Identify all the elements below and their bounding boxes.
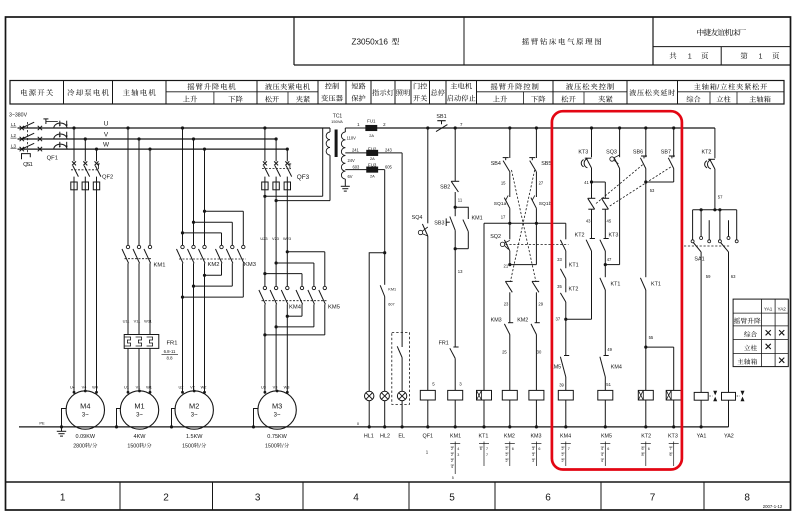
svg-text:KM1: KM1 <box>472 215 483 221</box>
coil KM1 <box>448 390 463 400</box>
svg-text:U: U <box>104 120 109 127</box>
svg-text:63: 63 <box>731 274 736 279</box>
svg-text:23: 23 <box>504 302 509 307</box>
svg-text:1: 1 <box>60 493 66 504</box>
svg-text:43: 43 <box>586 219 591 224</box>
svg-text:W11: W11 <box>144 319 152 324</box>
svg-text:6: 6 <box>669 453 671 457</box>
svg-text:57: 57 <box>718 195 723 200</box>
column SQ4 / QF1 undervoltage coil <box>426 126 429 129</box>
contact KT1 in KT2 branch <box>645 182 647 277</box>
header label coolant pump motor <box>67 89 74 96</box>
header label main motor start stop <box>450 83 457 89</box>
svg-text:Z3050x16: Z3050x16 <box>352 38 389 47</box>
svg-text:KT2: KT2 <box>569 286 579 292</box>
contact table KM3 <box>535 442 537 467</box>
svg-text:V2: V2 <box>190 384 195 389</box>
svg-text:3: 3 <box>532 459 534 463</box>
wire 63 to YA2 <box>728 252 730 393</box>
up button SB4 <box>503 157 509 159</box>
svg-text:W2: W2 <box>201 384 207 389</box>
svg-text:3: 3 <box>532 453 534 457</box>
red highlight box <box>552 111 682 469</box>
svg-text:0: 0 <box>191 443 194 449</box>
svg-text:KT1: KT1 <box>651 282 661 288</box>
stop button SB2 <box>451 180 459 182</box>
svg-text:37: 37 <box>556 317 561 322</box>
svg-text:V: V <box>104 131 109 138</box>
clamp chain SQ2 second contact <box>560 240 565 251</box>
clamp chain KT1 contact <box>560 269 565 279</box>
svg-text:YA2: YA2 <box>724 433 734 439</box>
fuse FU2 <box>367 150 378 155</box>
node 53 <box>644 180 647 183</box>
svg-text:3~: 3~ <box>191 413 198 419</box>
interlock contact KM2 NC <box>531 324 536 335</box>
svg-text:FU2: FU2 <box>368 146 377 151</box>
svg-text:1: 1 <box>759 52 763 61</box>
svg-text:3~: 3~ <box>136 413 143 419</box>
stop button SB1 on rail <box>437 120 445 122</box>
svg-text:SB4: SB4 <box>491 161 501 167</box>
svg-text:150VA: 150VA <box>331 119 343 124</box>
svg-text:5: 5 <box>449 493 455 504</box>
svg-text:27: 27 <box>539 181 544 186</box>
svg-text:605: 605 <box>385 164 393 169</box>
svg-text:3~: 3~ <box>274 413 281 419</box>
wire control rail L1 <box>377 127 715 129</box>
solenoid function table <box>733 299 788 367</box>
svg-text:L1: L1 <box>11 122 16 127</box>
svg-text:51: 51 <box>606 382 611 387</box>
motor breaker QF2 <box>73 128 75 161</box>
interlock KM5 NC tall <box>565 319 567 355</box>
svg-text:V3: V3 <box>273 384 278 389</box>
svg-text:11: 11 <box>458 198 463 203</box>
svg-text:4: 4 <box>601 459 603 463</box>
header label hydraulic clamp control <box>566 83 573 90</box>
svg-text:KT2: KT2 <box>575 233 585 239</box>
svg-text:KT3: KT3 <box>668 433 678 439</box>
wires KM4/KM5 to motor M3 <box>264 304 266 392</box>
svg-text:0: 0 <box>274 443 277 449</box>
svg-text:KM4: KM4 <box>560 433 571 439</box>
header label hydraulic clamp motor <box>265 83 272 90</box>
svg-text:55: 55 <box>649 335 654 340</box>
KM1 aux contact for HL2 <box>380 285 385 296</box>
svg-text:4: 4 <box>353 493 359 504</box>
header label spindle motor <box>123 89 130 96</box>
svg-text:/: / <box>717 82 719 91</box>
svg-text:QF2: QF2 <box>102 175 113 181</box>
svg-text:SQ1b: SQ1b <box>539 201 552 207</box>
svg-text:KM1: KM1 <box>154 262 166 268</box>
svg-text:39: 39 <box>559 383 564 388</box>
KM5 output crossover wires <box>286 315 289 318</box>
svg-text:41: 41 <box>584 180 589 185</box>
wire QF2 to motor M4 <box>73 190 75 392</box>
svg-text:HL1: HL1 <box>364 433 374 439</box>
coil KT3 <box>673 347 675 390</box>
svg-text:49: 49 <box>607 347 612 352</box>
wire 605 to KM1 aux contact <box>384 170 386 285</box>
svg-text:HL2: HL2 <box>380 433 390 439</box>
column SB2 SB3 KM1 coil <box>454 128 456 181</box>
svg-text:M4: M4 <box>80 402 90 411</box>
svg-text:8: 8 <box>642 453 644 457</box>
svg-text:KM3: KM3 <box>244 262 256 268</box>
rung into clamp chain <box>565 223 567 239</box>
control rail from FU1 <box>345 127 366 129</box>
svg-text:U23: U23 <box>260 236 267 241</box>
thermal overload relay FR1 <box>124 335 159 349</box>
KM5 input crossover wires <box>286 250 289 253</box>
solenoid valve YA1 <box>694 392 708 400</box>
svg-text:2007-1-12: 2007-1-12 <box>763 504 783 509</box>
svg-text:7: 7 <box>486 453 488 457</box>
start button SB3 <box>454 207 456 216</box>
ground symbol <box>60 425 63 428</box>
contactor KM1 main contacts <box>127 128 129 245</box>
column KT1 coil <box>483 223 485 390</box>
svg-text:24V: 24V <box>348 158 356 163</box>
svg-text:3: 3 <box>255 493 261 504</box>
wire 243 to work light <box>401 153 403 347</box>
svg-text:V11: V11 <box>134 319 141 324</box>
svg-text:7: 7 <box>650 493 656 504</box>
svg-text:L3: L3 <box>11 143 16 148</box>
column SB6 release button <box>644 126 647 129</box>
KM3 input crossover wires <box>203 210 206 213</box>
svg-text:FR1: FR1 <box>167 341 178 347</box>
contactor KM4 main contacts <box>263 286 266 289</box>
svg-text:3~: 3~ <box>82 413 89 419</box>
contact table KM5 <box>604 442 606 467</box>
limit switch SQ1b <box>531 198 537 209</box>
svg-text:4: 4 <box>457 447 459 451</box>
contact table KT2 <box>645 442 647 467</box>
header label power switch <box>21 89 27 96</box>
svg-text:2A: 2A <box>370 156 375 161</box>
svg-text:2A: 2A <box>369 133 374 138</box>
svg-text:YA1: YA1 <box>697 433 707 439</box>
TC1 secondary winding <box>341 132 345 140</box>
svg-text:QF1: QF1 <box>47 156 58 162</box>
svg-text:M3: M3 <box>272 402 282 411</box>
svg-text:2: 2 <box>506 447 508 451</box>
svg-text:7: 7 <box>568 447 570 451</box>
svg-text:3~380V: 3~380V <box>9 113 28 119</box>
svg-text:W4: W4 <box>92 384 99 389</box>
svg-text:5: 5 <box>452 476 454 480</box>
function header table grid <box>10 81 784 105</box>
indicator lamp HL1 <box>365 391 374 400</box>
svg-text:V1: V1 <box>136 384 141 389</box>
header label spindlebox column clamp <box>694 83 701 89</box>
header label short-circuit protection <box>352 83 359 90</box>
svg-text:W: W <box>103 142 110 149</box>
svg-text:6: 6 <box>607 447 609 451</box>
svg-text:KT3: KT3 <box>609 233 619 239</box>
column SQ3 <box>618 126 621 129</box>
SA1 mechanical link dashed <box>684 245 730 247</box>
KM3 output crossover wires <box>203 274 206 277</box>
svg-text:0.75KW: 0.75KW <box>267 434 287 440</box>
svg-text:7: 7 <box>486 447 488 451</box>
svg-text:30: 30 <box>537 350 542 355</box>
svg-text:YA1: YA1 <box>764 306 773 311</box>
contact table KM2 <box>509 442 511 467</box>
wire phase V bus <box>18 138 277 140</box>
wires QF3 outputs <box>264 190 266 286</box>
svg-text:21: 21 <box>504 264 509 269</box>
solenoid valve YA2 <box>722 392 736 400</box>
svg-text:33: 33 <box>557 257 562 262</box>
wire phase U bus <box>18 127 331 129</box>
svg-text:KT1: KT1 <box>569 262 579 268</box>
svg-text:8.8: 8.8 <box>167 355 174 360</box>
title text diagram name <box>522 38 529 45</box>
svg-text:2: 2 <box>562 447 564 451</box>
svg-text:W3: W3 <box>284 384 290 389</box>
svg-text:U4: U4 <box>70 384 76 389</box>
svg-text:0.09KW: 0.09KW <box>76 434 96 440</box>
work light EL <box>397 391 406 400</box>
svg-text:PE: PE <box>39 421 45 426</box>
header label hydraulic clamp delay <box>629 89 636 96</box>
svg-text:243: 243 <box>385 148 393 153</box>
wire 59 to YA1 <box>700 252 702 393</box>
node 7 <box>454 126 457 129</box>
title text factory name <box>697 29 704 36</box>
TC1 secondary ground <box>341 185 350 187</box>
interlock contact KM3 NC <box>504 324 509 335</box>
svg-text:2: 2 <box>562 459 564 463</box>
svg-text:241: 241 <box>352 148 360 153</box>
branch KT2 NC contact <box>586 240 591 251</box>
svg-text:25: 25 <box>502 350 507 355</box>
coil KT1 <box>477 390 492 400</box>
fuse FU3 <box>367 167 378 172</box>
svg-text:SQ4: SQ4 <box>412 215 423 221</box>
limit switch SQ2 hydraulic <box>509 223 511 239</box>
svg-text:KM2: KM2 <box>504 433 515 439</box>
coil KM5 <box>598 390 613 400</box>
svg-text:2: 2 <box>506 453 508 457</box>
TC1 primary winding <box>329 128 331 132</box>
svg-text:4: 4 <box>451 465 453 469</box>
node 41 <box>590 180 593 183</box>
disconnect switch QS1 <box>20 126 24 130</box>
down button SB5 <box>529 157 535 159</box>
fuse FU1 2A <box>366 125 377 130</box>
svg-text:SQ1a: SQ1a <box>494 201 507 207</box>
svg-text:6: 6 <box>538 447 540 451</box>
svg-text:M2: M2 <box>189 402 199 411</box>
6V tap line 603-605 <box>345 169 367 171</box>
svg-text:SB6: SB6 <box>633 150 643 156</box>
header label arm lift motor <box>188 83 195 90</box>
svg-text:SB1: SB1 <box>436 114 446 120</box>
motor PE bonding elbows <box>62 409 67 427</box>
svg-text:SA1: SA1 <box>694 257 704 263</box>
svg-text:W23: W23 <box>283 236 291 241</box>
node 55 <box>644 346 647 349</box>
limit switch SQ1a <box>504 198 510 209</box>
header label lighting <box>396 89 403 95</box>
contactor KM5 main contacts <box>300 286 303 289</box>
svg-text:KT2: KT2 <box>641 433 651 439</box>
door limit switch SQ4 <box>418 230 422 234</box>
column SB5 down-control <box>535 126 538 129</box>
header label control transformer <box>325 83 332 90</box>
svg-text:3: 3 <box>532 447 534 451</box>
title text page total <box>670 52 677 59</box>
motor M3 hydraulic pump <box>258 391 296 429</box>
hydraulic breaker QF3 <box>264 128 266 161</box>
header label indicator lamp <box>372 89 379 96</box>
column KT3 release contact <box>590 126 593 129</box>
wire to indicator HL1 <box>383 251 386 254</box>
title block table <box>293 17 295 65</box>
svg-text:13: 13 <box>458 269 463 274</box>
svg-text:2: 2 <box>562 453 564 457</box>
svg-text:1.5KW: 1.5KW <box>186 434 203 440</box>
svg-text:KM5: KM5 <box>601 433 612 439</box>
wire phase W bus <box>18 148 288 150</box>
svg-text:KM1: KM1 <box>388 288 396 292</box>
svg-text:SB2: SB2 <box>440 185 450 191</box>
contactor KM3 main contacts <box>220 245 223 248</box>
svg-text:KT2: KT2 <box>702 150 712 156</box>
node 21 <box>508 263 511 266</box>
svg-text:U2: U2 <box>179 384 184 389</box>
svg-text:59: 59 <box>706 274 711 279</box>
FR1 trip contact <box>450 348 455 358</box>
indicator lamp HL2 <box>380 391 389 400</box>
column SB7 clamp button <box>672 126 675 129</box>
svg-text:15: 15 <box>501 181 506 186</box>
svg-text:2: 2 <box>451 459 453 463</box>
svg-text:KM3: KM3 <box>491 317 502 323</box>
node 47 <box>604 263 607 266</box>
motor M4 coolant pump <box>66 391 104 429</box>
pressure switch SQ3 <box>610 157 614 161</box>
svg-text:603: 603 <box>352 164 360 169</box>
svg-text:SQ3: SQ3 <box>606 150 617 156</box>
svg-text:FU3: FU3 <box>368 163 377 168</box>
contact KT1 in KM5 branch <box>604 265 606 278</box>
mechanical links SB6 SB7 dashed <box>596 164 644 204</box>
svg-text:EL: EL <box>398 433 405 439</box>
svg-text:45: 45 <box>607 219 612 224</box>
svg-text:3: 3 <box>457 453 459 457</box>
KM1 self-holding contact <box>455 207 468 219</box>
svg-text:FR1: FR1 <box>439 340 449 346</box>
svg-text:607: 607 <box>388 303 394 307</box>
svg-text:1: 1 <box>30 162 33 168</box>
svg-text:U1: U1 <box>124 384 129 389</box>
coil KM2 <box>502 390 517 400</box>
mechanical link SQ2 dashed <box>506 244 569 246</box>
svg-text:V23: V23 <box>272 236 279 241</box>
work light switch <box>397 346 402 357</box>
24V tap line 241-243 <box>345 152 367 154</box>
svg-text:1: 1 <box>688 52 692 61</box>
svg-text:6.8-11: 6.8-11 <box>164 349 176 354</box>
contactor KM2 main contacts <box>182 128 184 245</box>
svg-text:SB5: SB5 <box>541 161 551 167</box>
header label master stop <box>431 89 437 95</box>
svg-text:2: 2 <box>506 459 508 463</box>
svg-text:4KW: 4KW <box>134 434 147 440</box>
coil KT2 <box>645 347 647 390</box>
svg-text:KM2: KM2 <box>517 317 528 323</box>
rung 17 horizontal <box>484 222 566 224</box>
svg-text:KT1: KT1 <box>479 433 489 439</box>
svg-text:KM3: KM3 <box>530 433 541 439</box>
svg-text:6: 6 <box>648 447 650 451</box>
svg-text:U11: U11 <box>123 319 130 324</box>
TC1 core <box>335 130 338 158</box>
svg-text:2: 2 <box>451 453 453 457</box>
svg-text:2: 2 <box>163 493 169 504</box>
svg-text:KT1: KT1 <box>611 282 621 288</box>
svg-text:W1: W1 <box>146 384 152 389</box>
svg-text:6: 6 <box>642 447 644 451</box>
motor M2 arm lift <box>175 391 213 429</box>
node 37 <box>564 318 567 321</box>
junction dots on buses <box>72 126 75 129</box>
svg-text:29: 29 <box>538 302 543 307</box>
selector switch SA1 <box>693 209 737 211</box>
svg-text:4: 4 <box>601 447 603 451</box>
svg-text:0: 0 <box>82 443 85 449</box>
svg-text:KM1: KM1 <box>450 433 461 439</box>
svg-text:KM5: KM5 <box>328 305 340 311</box>
svg-text:4: 4 <box>601 453 603 457</box>
svg-text:47: 47 <box>607 257 612 262</box>
SA1 blades <box>693 243 701 252</box>
svg-text:17: 17 <box>501 215 506 220</box>
contact table KT1 <box>483 442 485 467</box>
svg-text:QF3: QF3 <box>297 174 310 181</box>
svg-text:2: 2 <box>451 447 453 451</box>
clamp chain KT2 contact <box>560 293 565 302</box>
coil KM3 <box>529 390 544 400</box>
column KT2 delay contact right <box>714 128 716 158</box>
svg-text:53: 53 <box>650 188 655 193</box>
circuit breaker QF1 <box>38 126 42 130</box>
transformer TC1 <box>322 128 324 196</box>
protective earth rail <box>19 426 729 428</box>
svg-text:2A: 2A <box>370 173 375 178</box>
svg-text:V4: V4 <box>82 384 88 389</box>
svg-text:FU1: FU1 <box>367 118 376 123</box>
svg-text:6: 6 <box>545 493 551 504</box>
svg-text:QF1: QF1 <box>423 433 433 439</box>
svg-text:SB3: SB3 <box>434 220 444 226</box>
contact table KT3 <box>673 442 675 467</box>
wire TC1 primary feeds <box>265 195 323 197</box>
svg-text:7: 7 <box>669 447 671 451</box>
svg-text:0: 0 <box>136 443 139 449</box>
svg-text:KT3: KT3 <box>578 150 588 156</box>
svg-text:L2: L2 <box>11 133 16 138</box>
svg-text:110V: 110V <box>347 136 357 141</box>
clamp button SB7 <box>669 155 675 157</box>
svg-text:M1: M1 <box>134 402 144 411</box>
